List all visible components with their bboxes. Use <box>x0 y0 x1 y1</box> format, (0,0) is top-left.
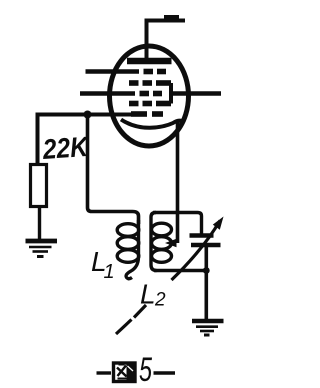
caption character TU (figure) <box>114 363 136 382</box>
caption right dash <box>154 371 176 374</box>
plate (anode) bar <box>127 58 172 65</box>
svg-text:1: 1 <box>104 261 115 283</box>
node junction dot L2 bottom / ground wire <box>203 267 210 274</box>
wire resistor bottom to ground <box>38 207 41 240</box>
variable capacitor C bottom plate <box>191 243 221 248</box>
wire L2 bottom to ground wire <box>154 269 207 272</box>
wire junction down to L1 top <box>88 117 139 224</box>
wire plate top lead <box>147 21 186 61</box>
variable capacitor dashed adjust line segment 2 <box>134 305 146 318</box>
grid G3 row (y=93.5) with left stub <box>80 91 162 95</box>
wire L2 top to capacitor <box>153 213 202 234</box>
variable capacitor C top plate <box>190 233 214 237</box>
caption left dash <box>97 371 112 374</box>
cathode arc <box>121 120 185 128</box>
inductor L1 coil <box>117 220 139 262</box>
grid G2 row (y=103.5) <box>129 101 171 107</box>
node junction dot grid wire <box>84 111 92 119</box>
wire top lead ink blob <box>164 15 179 20</box>
screen-grid bracket <box>169 83 173 104</box>
tube V1 envelope <box>110 46 189 146</box>
resistor R 22K body <box>31 165 47 207</box>
variable capacitor dashed adjust line segment 1 <box>116 320 132 335</box>
wire cathode lead down <box>176 121 180 243</box>
variable capacitor arrow <box>172 221 221 281</box>
ground symbol right <box>192 321 224 335</box>
svg-text:L: L <box>140 279 156 310</box>
wire grid G1 to resistor top <box>38 115 132 165</box>
svg-text:22K: 22K <box>41 131 90 165</box>
inductor L2 coil <box>151 213 172 271</box>
ground symbol left <box>26 241 58 257</box>
grid G5 row (y=71.5) with left stub <box>86 69 167 73</box>
grid G1 row (y=114) <box>131 111 163 117</box>
svg-text:5: 5 <box>139 351 152 388</box>
svg-text:2: 2 <box>154 290 166 311</box>
cathode tap arrow into L2 <box>165 239 177 247</box>
wire screen grid exit lead <box>171 91 221 95</box>
inductor L1 bottom tail hook <box>126 258 138 279</box>
grid G4 row (y=83) <box>129 80 171 86</box>
wire capacitor bottom to ground <box>205 246 209 320</box>
variable capacitor arrowhead <box>213 217 224 230</box>
